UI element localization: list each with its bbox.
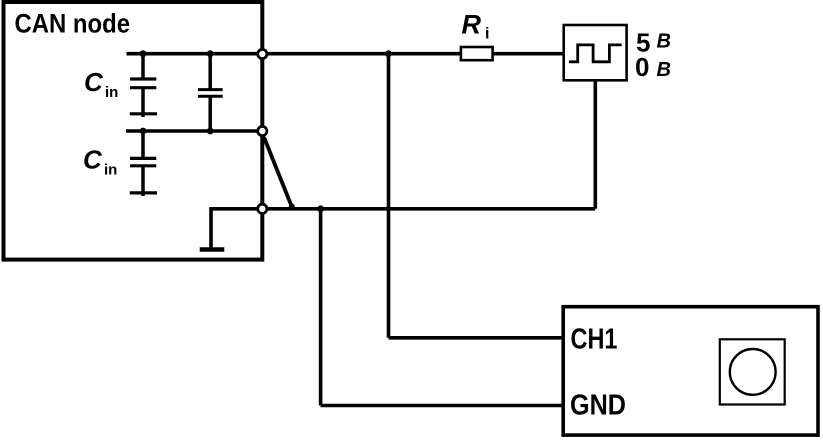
svg-text:GND: GND <box>570 389 626 421</box>
svg-text:B: B <box>657 31 671 53</box>
svg-text:CAN node: CAN node <box>15 9 131 39</box>
svg-text:in: in <box>104 161 117 178</box>
svg-text:B: B <box>657 59 671 81</box>
svg-text:R: R <box>462 10 482 40</box>
svg-text:0: 0 <box>635 52 649 82</box>
svg-text:C: C <box>83 145 103 175</box>
svg-text:CH1: CH1 <box>571 324 618 356</box>
svg-text:C: C <box>84 67 104 97</box>
svg-text:i: i <box>485 26 489 43</box>
svg-text:in: in <box>105 84 118 101</box>
